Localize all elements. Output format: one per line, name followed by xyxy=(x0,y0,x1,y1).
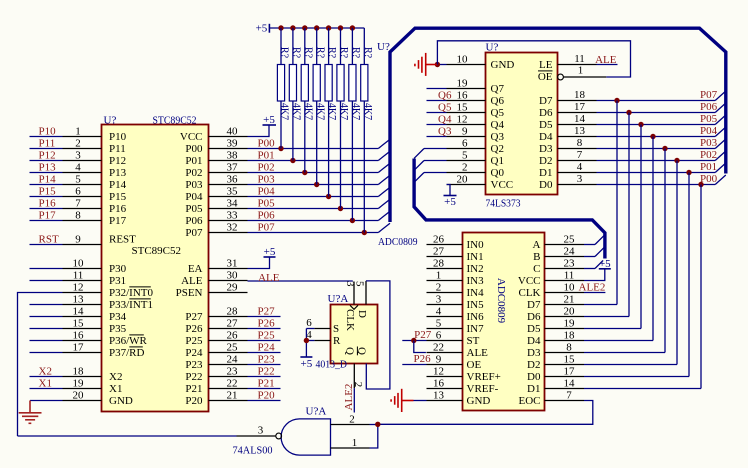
svg-text:6: 6 xyxy=(462,138,468,150)
svg-text:STC89C52: STC89C52 xyxy=(153,115,197,127)
svg-text:P00: P00 xyxy=(700,173,718,185)
svg-text:D6: D6 xyxy=(539,107,553,119)
wire MCU pin 19 xyxy=(30,388,63,390)
4013 pin 6 (S) stub xyxy=(314,328,330,330)
svg-text:P12: P12 xyxy=(109,155,126,167)
svg-text:26: 26 xyxy=(227,330,239,342)
svg-text:ALE: ALE xyxy=(258,272,280,284)
74LS373 pin 19 (Q7) stub xyxy=(447,88,486,90)
wire P00 (MCU side) xyxy=(248,148,379,150)
MCU pin 29 (PSEN) stub xyxy=(209,292,248,294)
74LS373 pin 15 (Q5) stub xyxy=(447,112,486,114)
power +5 (resistor rail) xyxy=(268,24,270,33)
74LS373 pin 17 (D6) stub xyxy=(558,112,597,114)
wire MCU pin 18 xyxy=(30,376,63,378)
resistor R4 (4K7) xyxy=(313,28,320,185)
svg-text:23: 23 xyxy=(564,258,576,270)
wire P24 xyxy=(248,352,281,354)
svg-text:20: 20 xyxy=(457,174,469,186)
svg-text:6: 6 xyxy=(75,186,81,198)
wire ADC D out row 340 xyxy=(584,340,653,342)
svg-text:P11: P11 xyxy=(39,138,56,150)
junction rail/R4 xyxy=(314,25,319,30)
svg-text:33: 33 xyxy=(227,210,239,222)
junction P05 / resistor xyxy=(338,206,343,211)
wire P27 xyxy=(248,316,281,318)
svg-text:ADC0809: ADC0809 xyxy=(495,278,507,324)
wire D4 to bus/riser xyxy=(597,136,716,138)
wire P21 xyxy=(248,388,281,390)
MCU pin 7 (P16) stub xyxy=(63,208,102,210)
wire D3 to bus/riser xyxy=(597,148,716,150)
riser wire D5 down to ADC xyxy=(640,125,642,329)
wire MCU pin 16 xyxy=(30,340,63,342)
4013 pin 1 (Q) stub to ALE2 xyxy=(353,364,355,389)
svg-text:4: 4 xyxy=(75,162,81,174)
svg-text:2: 2 xyxy=(349,413,355,425)
riser wire D6 down to ADC xyxy=(628,113,630,317)
wire ADC D out row 376 xyxy=(584,376,689,378)
svg-text:P10: P10 xyxy=(39,126,57,138)
svg-text:13: 13 xyxy=(73,294,85,306)
svg-text:P27: P27 xyxy=(185,311,203,323)
svg-text:P22: P22 xyxy=(258,366,275,378)
wire P26 to OE xyxy=(402,364,426,366)
wire +5 rail xyxy=(269,27,364,29)
MCU pin 39 (P00) stub xyxy=(209,148,248,150)
svg-text:4K7: 4K7 xyxy=(350,103,361,120)
svg-text:Q5: Q5 xyxy=(438,102,452,114)
wire P06 (MCU side) xyxy=(248,220,379,222)
bus entry P05 (right) xyxy=(715,115,726,125)
wire GND-373 to ground xyxy=(438,64,447,66)
svg-text:4K7: 4K7 xyxy=(291,103,302,120)
bus entry P05 (left) xyxy=(378,199,390,208)
bus entry P01 (left) xyxy=(378,151,390,160)
wire Q3 xyxy=(427,136,447,138)
ADC pin 2 (IN4) stub xyxy=(427,292,463,294)
svg-text:13: 13 xyxy=(574,125,586,137)
svg-text:37: 37 xyxy=(227,162,239,174)
svg-text:A: A xyxy=(533,239,541,251)
svg-text:S: S xyxy=(333,323,339,335)
ADC pin 22 (ALE) stub xyxy=(427,352,463,354)
svg-text:P23: P23 xyxy=(258,354,276,366)
wire ADC D out row 364 xyxy=(584,364,677,366)
bus entry B xyxy=(595,247,605,257)
junction D2/riser xyxy=(674,158,679,163)
wire P25 xyxy=(248,340,281,342)
MCU pin 15 (P35) stub xyxy=(63,328,102,330)
svg-text:5: 5 xyxy=(462,150,468,162)
svg-text:P33/INT1: P33/INT1 xyxy=(109,299,153,311)
wire NAND pin2 to junction xyxy=(370,424,378,426)
wire ALE2 (dangling) xyxy=(353,388,355,412)
svg-text:P17: P17 xyxy=(39,210,57,222)
svg-text:D7: D7 xyxy=(527,299,541,311)
wire ADC D out row 352 xyxy=(584,352,665,354)
svg-text:P26: P26 xyxy=(258,318,276,330)
svg-text:15: 15 xyxy=(564,354,576,366)
svg-text:20: 20 xyxy=(73,390,85,402)
svg-text:Q0: Q0 xyxy=(491,167,505,179)
MCU pin 14 (P34) stub xyxy=(63,316,102,318)
wire ADC D out row 388 xyxy=(584,388,701,390)
svg-text:VCC: VCC xyxy=(491,179,514,191)
svg-text:17: 17 xyxy=(73,342,85,354)
svg-text:R?: R? xyxy=(302,47,313,59)
svg-text:11: 11 xyxy=(564,270,575,282)
MCU pin 36 (P03) stub xyxy=(209,184,248,186)
74LS373 pin 4 (D1) stub xyxy=(558,172,597,174)
power +5 (MCU EA pin 31) xyxy=(248,257,270,269)
svg-text:VCC: VCC xyxy=(518,275,541,287)
svg-text:4K7: 4K7 xyxy=(362,103,373,120)
bus entry P04 (left) xyxy=(378,187,390,196)
svg-text:31: 31 xyxy=(227,258,238,270)
svg-text:P01: P01 xyxy=(700,161,717,173)
bus entry P03 (right) xyxy=(715,139,726,149)
MCU pin 37 (P02) stub xyxy=(209,172,248,174)
svg-text:C: C xyxy=(533,263,540,275)
svg-text:1: 1 xyxy=(352,437,358,449)
svg-text:29: 29 xyxy=(227,282,239,294)
svg-text:ALE2: ALE2 xyxy=(579,282,606,294)
MCU pin 1 (P10) stub xyxy=(63,136,102,138)
junction rail/R2 xyxy=(290,25,295,30)
svg-text:P34: P34 xyxy=(109,311,127,323)
svg-text:P03: P03 xyxy=(700,137,718,149)
ADC pin 1 (IN3) stub xyxy=(427,280,463,282)
svg-text:P31: P31 xyxy=(109,275,126,287)
junction D1/riser xyxy=(686,170,691,175)
ADC pin 5 (IN7) stub xyxy=(427,328,463,330)
svg-text:19: 19 xyxy=(564,318,576,330)
overbar RD xyxy=(129,346,143,348)
svg-text:P15: P15 xyxy=(109,191,127,203)
bus entry P04 (right) xyxy=(715,127,726,137)
MCU pin 19 (X1) stub xyxy=(63,388,102,390)
ADC pin 27 (IN1) stub xyxy=(427,256,463,258)
svg-text:P10: P10 xyxy=(109,131,127,143)
svg-text:+5: +5 xyxy=(256,23,268,35)
svg-text:4K7: 4K7 xyxy=(302,103,313,120)
svg-text:D0: D0 xyxy=(527,371,541,383)
MCU pin 11 (P31) stub xyxy=(63,280,102,282)
svg-text:R?: R? xyxy=(326,47,337,59)
74LS373 pin 8 (D3) stub xyxy=(558,148,597,150)
bus entry P01 (right) xyxy=(715,163,726,173)
svg-text:8: 8 xyxy=(566,342,572,354)
74LS373 pin 1 stub xyxy=(564,76,607,78)
svg-text:4K7: 4K7 xyxy=(338,103,349,120)
wire Q1 xyxy=(424,160,447,162)
junction D4/riser xyxy=(650,134,655,139)
svg-text:R?: R? xyxy=(362,47,373,59)
junction D0/riser xyxy=(698,182,703,187)
svg-text:P17: P17 xyxy=(109,215,127,227)
svg-text:3: 3 xyxy=(436,294,442,306)
svg-text:P04: P04 xyxy=(258,186,276,198)
74LS373 pin 2 (Q0) stub xyxy=(447,172,486,174)
svg-text:39: 39 xyxy=(227,138,239,150)
svg-text:8: 8 xyxy=(75,210,81,222)
ADC pin 19 (D5) stub xyxy=(545,328,585,330)
svg-text:D4: D4 xyxy=(527,335,541,347)
svg-text:P02: P02 xyxy=(700,149,717,161)
MCU pin 25 (P24) stub xyxy=(209,352,248,354)
wire MCU pin 11 xyxy=(30,280,63,282)
clock triangle (CLK pin) xyxy=(350,305,358,309)
svg-text:RST: RST xyxy=(39,234,59,246)
wire Q4 xyxy=(427,124,447,126)
wire MCU pin 17 xyxy=(30,352,63,354)
svg-text:4K7: 4K7 xyxy=(314,103,325,120)
74LS373 pin 13 (D4) stub xyxy=(558,136,597,138)
svg-text:IN7: IN7 xyxy=(467,323,485,335)
ADC pin 21 (D7) stub xyxy=(545,304,585,306)
MCU pin 13 (P33/INT1) stub xyxy=(63,304,102,306)
ADC pin 8 (D3) stub xyxy=(545,352,585,354)
svg-text:Q3: Q3 xyxy=(491,131,505,143)
svg-text:GND: GND xyxy=(467,395,491,407)
resistor R3 (4K7) xyxy=(301,28,308,173)
wire P26 xyxy=(248,328,281,330)
svg-text:EA: EA xyxy=(188,263,203,275)
svg-text:GND: GND xyxy=(491,59,515,71)
svg-text:4013_D: 4013_D xyxy=(316,359,348,371)
svg-text:D2: D2 xyxy=(527,359,540,371)
svg-text:Q2: Q2 xyxy=(491,143,504,155)
junction D3/riser xyxy=(662,146,667,151)
ADC pin 12 (VREF+) stub xyxy=(427,376,463,378)
svg-text:1: 1 xyxy=(75,126,81,138)
MCU pin 17 (P37/RD) stub xyxy=(63,352,102,354)
svg-text:19: 19 xyxy=(457,78,469,90)
svg-text:P26: P26 xyxy=(414,353,432,365)
svg-text:P00: P00 xyxy=(258,138,276,150)
junction P01 / resistor xyxy=(290,158,295,163)
wire D7 to bus/riser xyxy=(597,100,716,102)
ADC pin 15 (D2) stub xyxy=(545,364,585,366)
ADC pin 25 (A) stub xyxy=(545,244,585,246)
MCU pin 32 (P07) stub xyxy=(209,232,248,234)
svg-text:R?: R? xyxy=(338,47,349,59)
svg-text:P36/WR: P36/WR xyxy=(109,335,148,347)
wire NAND pin1 tie-up xyxy=(370,424,378,448)
svg-text:P07: P07 xyxy=(185,227,203,239)
MCU pin 22 (P21) stub xyxy=(209,388,248,390)
svg-text:P21: P21 xyxy=(258,378,275,390)
svg-text:P25: P25 xyxy=(185,335,203,347)
svg-text:15: 15 xyxy=(457,102,469,114)
svg-text:2: 2 xyxy=(436,282,442,294)
bus entry P02 (left) xyxy=(378,163,390,172)
wire GND/OE loop (over 74LS373) xyxy=(437,41,630,77)
junction D7/riser xyxy=(614,98,619,103)
svg-text:D4: D4 xyxy=(539,131,553,143)
MCU pin 10 (P30) stub xyxy=(63,268,102,270)
svg-text:3: 3 xyxy=(75,150,81,162)
MCU pin 35 (P04) stub xyxy=(209,196,248,198)
flip-flop U?A 4013_D body xyxy=(331,305,378,364)
svg-text:Q6: Q6 xyxy=(491,95,505,107)
svg-text:+5: +5 xyxy=(263,114,275,126)
svg-text:35: 35 xyxy=(227,186,239,198)
svg-text:12: 12 xyxy=(433,366,444,378)
svg-text:18: 18 xyxy=(574,89,586,101)
svg-text:P12: P12 xyxy=(39,150,56,162)
junction P07 / resistor xyxy=(362,230,367,235)
svg-text:OE: OE xyxy=(538,71,553,83)
svg-text:7: 7 xyxy=(75,198,81,210)
svg-text:U?: U? xyxy=(104,115,117,127)
riser wire D1 down to ADC xyxy=(688,173,690,377)
junction P03 / resistor xyxy=(314,182,319,187)
wire MCU pin 6 xyxy=(30,196,63,198)
svg-text:D3: D3 xyxy=(527,347,541,359)
svg-text:D3: D3 xyxy=(539,143,553,155)
ADC pin 7 (EOC) stub xyxy=(545,400,585,402)
svg-text:ALE: ALE xyxy=(467,347,489,359)
MCU pin 27 (P26) stub xyxy=(209,328,248,330)
wire D6 to bus/riser xyxy=(597,112,716,114)
resistor R6 (4K7) xyxy=(337,28,344,209)
svg-text:22: 22 xyxy=(433,342,444,354)
wire P04 (MCU side) xyxy=(248,196,379,198)
svg-text:P02: P02 xyxy=(258,162,275,174)
microcontroller U? STC89C52 body xyxy=(102,125,209,412)
svg-text:IN4: IN4 xyxy=(467,287,485,299)
power +5 (ADC VCC pin 11) xyxy=(584,269,605,281)
74LS373 pin 7 (D2) stub xyxy=(558,160,597,162)
svg-text:21: 21 xyxy=(564,294,575,306)
junction rail/R5 xyxy=(326,25,331,30)
wire MCU pin 4 xyxy=(30,172,63,174)
svg-text:P20: P20 xyxy=(258,390,276,402)
wire MCU GND xyxy=(30,400,63,402)
svg-text:9: 9 xyxy=(75,234,81,246)
svg-text:D5: D5 xyxy=(527,323,541,335)
svg-text:VREF+: VREF+ xyxy=(467,371,501,383)
wire MCU pin 3 xyxy=(30,160,63,162)
wire MCU pin 2 xyxy=(30,148,63,150)
svg-text:IN2: IN2 xyxy=(467,263,484,275)
wire P27 to ST xyxy=(402,340,426,342)
wire D2 to bus/riser xyxy=(597,160,716,162)
svg-text:P21: P21 xyxy=(185,383,202,395)
svg-text:R?: R? xyxy=(314,47,325,59)
nand-gate U?A 74ALS00 body (mirrored) xyxy=(281,419,330,455)
MCU pin 9 (REST) stub xyxy=(63,244,102,246)
svg-text:U?A: U?A xyxy=(306,406,327,418)
svg-text:P04: P04 xyxy=(185,191,203,203)
svg-text:P16: P16 xyxy=(39,198,57,210)
svg-text:25: 25 xyxy=(227,342,239,354)
svg-text:23: 23 xyxy=(227,366,239,378)
74LS373 pin 5 (Q1) stub xyxy=(447,160,486,162)
svg-text:ADC0809: ADC0809 xyxy=(378,236,418,248)
overbar INT0 xyxy=(129,286,151,288)
svg-text:D0: D0 xyxy=(539,179,553,191)
svg-text:Q4: Q4 xyxy=(491,119,505,131)
junction P27/ALE branch xyxy=(411,338,416,343)
wire Q5 xyxy=(427,112,447,114)
svg-text:5: 5 xyxy=(75,174,81,186)
svg-text:Q7: Q7 xyxy=(491,83,505,95)
4013 pin 5 (D) stub xyxy=(365,281,367,305)
NAND output bubble xyxy=(276,433,282,439)
svg-text:4K7: 4K7 xyxy=(279,103,290,120)
svg-text:P23: P23 xyxy=(185,359,203,371)
svg-text:X2: X2 xyxy=(109,371,122,383)
svg-text:R: R xyxy=(333,335,341,347)
svg-text:P02: P02 xyxy=(185,167,202,179)
svg-text:IN6: IN6 xyxy=(467,311,485,323)
svg-text:STC89C52: STC89C52 xyxy=(132,245,182,257)
bus entry P07 (left) xyxy=(378,223,390,232)
ADC pin 6 (ST) stub xyxy=(427,340,463,342)
svg-text:P15: P15 xyxy=(39,186,57,198)
MCU pin 30 (ALE) stub xyxy=(209,280,248,282)
svg-text:P27: P27 xyxy=(414,329,432,341)
resistor R8 (4K7) xyxy=(361,28,368,233)
wire P32/INT0 to NAND output (left vertical) xyxy=(18,293,63,437)
svg-text:VREF-: VREF- xyxy=(467,383,499,395)
svg-text:P37/RD: P37/RD xyxy=(109,347,145,359)
wire Q0 xyxy=(424,172,447,174)
MCU pin 20 (GND) stub xyxy=(63,400,102,402)
svg-text:D6: D6 xyxy=(527,311,541,323)
MCU pin 38 (P01) stub xyxy=(209,160,248,162)
svg-text:P13: P13 xyxy=(39,162,57,174)
svg-text:14: 14 xyxy=(564,378,576,390)
MCU pin 16 (P36/WR) stub xyxy=(63,340,102,342)
svg-text:R?: R? xyxy=(279,47,290,59)
svg-text:VCC: VCC xyxy=(180,131,203,143)
bus entry Q1 xyxy=(414,161,424,171)
MCU pin 3 (P12) stub xyxy=(63,160,102,162)
ADC pin 13 (GND) stub xyxy=(427,400,463,402)
svg-text:P24: P24 xyxy=(185,347,203,359)
svg-text:P26: P26 xyxy=(185,323,203,335)
wire S/R to +5 xyxy=(306,328,314,330)
svg-text:CLK: CLK xyxy=(519,287,541,299)
svg-text:4: 4 xyxy=(436,306,442,318)
svg-text:10: 10 xyxy=(564,282,576,294)
svg-text:P01: P01 xyxy=(258,150,275,162)
svg-text:Q3: Q3 xyxy=(438,126,452,138)
svg-text:10: 10 xyxy=(73,258,85,270)
svg-text:19: 19 xyxy=(73,378,85,390)
MCU pin 4 (P13) stub xyxy=(63,172,102,174)
junction rail/R7 xyxy=(350,25,355,30)
wire P05 (MCU side) xyxy=(248,208,379,210)
bus entry P07 (right) xyxy=(715,91,726,101)
MCU pin 18 (X2) stub xyxy=(63,376,102,378)
wire NAND output to P32 (bottom long wire) xyxy=(18,435,237,437)
junction rail/R6 xyxy=(338,25,343,30)
svg-text:D1: D1 xyxy=(527,383,540,395)
svg-text:40: 40 xyxy=(227,126,239,138)
NAND pin 2 stub xyxy=(331,424,370,426)
resistor R2 (4K7) xyxy=(289,28,296,161)
svg-text:P35: P35 xyxy=(109,323,127,335)
svg-text:+5: +5 xyxy=(301,358,313,370)
svg-text:IN1: IN1 xyxy=(467,251,484,263)
svg-text:ALE: ALE xyxy=(181,275,203,287)
wire MCU pin 1 xyxy=(30,136,63,138)
